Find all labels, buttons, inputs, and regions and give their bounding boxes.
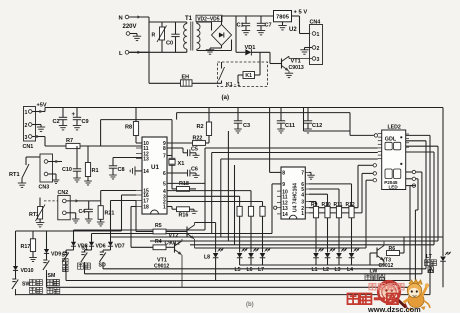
svg-text:VD9: VD9 [51, 252, 61, 258]
svg-text:9: 9 [282, 182, 285, 188]
wire right r1 [416, 172, 422, 274]
wire U1 pin2 to resistor L7 [167, 202, 263, 207]
watermark url [367, 305, 421, 314]
svg-text:LED2: LED2 [388, 124, 401, 130]
resistor for L5 [237, 206, 242, 252]
svg-text:L: L [119, 51, 123, 57]
node display right terminal 2 [406, 177, 416, 180]
thermal switch RT1 [9, 157, 40, 187]
svg-text:3: 3 [317, 57, 320, 63]
wire scan bus B4 [150, 240, 438, 242]
node display left terminal 3 [373, 172, 376, 175]
wire rectified rail [222, 16, 274, 25]
LED L8 [204, 248, 224, 281]
wire bottom bus y287 [47, 286, 416, 288]
svg-text:C0: C0 [166, 41, 173, 47]
wire right r2 [415, 179, 418, 287]
switch S1 timer [78, 246, 91, 274]
watermark seal [378, 281, 400, 303]
wire loop above U1 to display [177, 113, 350, 131]
terminal N [119, 15, 150, 21]
svg-text:1: 1 [25, 110, 28, 116]
capacitor C8 [109, 158, 142, 179]
svg-text:C2: C2 [53, 119, 60, 125]
svg-text:L6: L6 [247, 267, 253, 273]
svg-text:CN1: CN1 [23, 144, 34, 150]
wire display w3 [406, 146, 438, 241]
svg-text:2: 2 [25, 123, 28, 129]
svg-text:C11: C11 [285, 123, 295, 129]
transistor VT1 C9013 [282, 56, 313, 77]
wire scan bus B3 [111, 236, 444, 238]
transformer T1 [184, 16, 200, 52]
diode VD7 [103, 237, 125, 250]
svg-text:4: 4 [301, 192, 304, 198]
svg-text:+ 5 V: + 5 V [294, 10, 308, 16]
wire U1 pin3 to resistor L5 [167, 196, 240, 206]
svg-text:L2: L2 [323, 267, 329, 273]
wire keypad top bus [16, 231, 122, 265]
svg-text:L7: L7 [258, 267, 264, 273]
svg-text:SW: SW [22, 282, 30, 288]
resistor R1 [84, 146, 98, 185]
wire column x228 [227, 131, 229, 241]
label +5V [292, 10, 311, 34]
svg-text:5: 5 [163, 182, 166, 188]
capacitor C5 [167, 147, 200, 158]
svg-text:L5: L5 [235, 267, 241, 273]
svg-text:VD6: VD6 [96, 244, 106, 250]
svg-text:VT1: VT1 [291, 58, 301, 64]
svg-text:1: 1 [301, 211, 304, 217]
svg-text:18: 18 [143, 205, 149, 211]
LED L3 [335, 248, 348, 273]
svg-text:13: 13 [143, 157, 149, 163]
svg-text:C9: C9 [82, 119, 89, 125]
wire LED cathode bus [240, 264, 384, 266]
diode VD8 [66, 230, 88, 250]
wire +5V rail [32, 103, 443, 114]
svg-text:C4: C4 [79, 209, 86, 215]
resistor R7 [45, 138, 142, 149]
svg-text:L4: L4 [347, 267, 353, 273]
wire VT2 collector to L8 [195, 223, 216, 253]
svg-text:R17: R17 [21, 244, 31, 250]
bridge rectifier VD2~VD5 [196, 15, 232, 45]
label (b) [246, 302, 254, 308]
diode VD10 [13, 265, 34, 277]
diode VD9 [44, 231, 61, 258]
wire scan bus B5 [190, 244, 434, 246]
node U4 pin13 terminal [274, 206, 277, 209]
display module LED2 [378, 124, 409, 189]
svg-text:C6: C6 [191, 167, 198, 173]
svg-text:13: 13 [282, 206, 288, 212]
ground at CN2 pin2 [66, 213, 79, 223]
svg-text:2: 2 [317, 46, 320, 52]
connector CN1 [23, 107, 36, 151]
relay contact K1-1 dashed box [218, 62, 268, 87]
svg-text:3: 3 [25, 135, 28, 141]
svg-text:3: 3 [301, 200, 304, 206]
wire column x234 [234, 165, 236, 245]
wire scan bus B1 [74, 229, 206, 231]
resistor R9 [311, 202, 319, 253]
connector CN2 [58, 190, 71, 220]
watermark brush [396, 298, 409, 310]
wire +5V rail right drop [442, 108, 444, 238]
node display left terminal 1 [374, 134, 377, 137]
svg-text:C7: C7 [265, 23, 272, 29]
wire VD1 to VT1 base [270, 52, 282, 63]
terminal and ground for 220V neutral [126, 32, 141, 41]
wire loop above U1 to crystal [101, 120, 172, 156]
svg-text:11: 11 [282, 195, 288, 201]
svg-text:VD2~VD5: VD2~VD5 [197, 16, 220, 22]
wire U1 pin17 to VD7 column [111, 201, 137, 238]
wire display w2 [406, 141, 426, 269]
ground at CN4 pin2 [300, 48, 312, 55]
wire display third terminal [366, 180, 373, 248]
capacitor C9 [72, 108, 89, 130]
svg-text:U2: U2 [289, 27, 297, 33]
svg-text:VD7: VD7 [115, 244, 125, 250]
resistor R11 [334, 202, 343, 253]
svg-text:L1: L1 [312, 267, 318, 273]
wire U1 pin15 [101, 191, 136, 201]
svg-text:U4 74HC164: U4 74HC164 [293, 183, 299, 212]
label 220V [123, 24, 137, 30]
wire primary bottom [129, 51, 187, 53]
resistor R4 and transistor VT1 C9012 [153, 239, 183, 287]
resistor R2 [197, 108, 212, 144]
connector CN4 [310, 20, 323, 65]
svg-text:SM: SM [48, 273, 56, 279]
svg-text:8: 8 [163, 146, 166, 152]
svg-text:7: 7 [163, 154, 166, 160]
wire U1 pin16 to key bus [122, 195, 137, 231]
wire column x220 [221, 159, 378, 237]
relay coil K1 [238, 52, 260, 83]
heater EH [181, 75, 193, 87]
wire bottom bus y280 [66, 280, 410, 282]
label LW warm lamp [365, 269, 385, 281]
svg-text:CN3: CN3 [39, 185, 50, 191]
svg-text:R1: R1 [92, 168, 99, 174]
svg-text:220V: 220V [123, 24, 137, 30]
svg-text:R5: R5 [155, 223, 162, 229]
wire scan bus B2 [92, 184, 273, 234]
svg-text:14: 14 [282, 212, 288, 218]
wire U4 pin3 to R9 [309, 202, 316, 207]
wire display w4 [406, 152, 434, 245]
wire LED anode bus [195, 247, 367, 249]
svg-text:R2: R2 [197, 124, 204, 130]
svg-text:(b): (b) [246, 302, 254, 308]
svg-text:1: 1 [317, 32, 320, 38]
ground at U1 pin14 [130, 166, 142, 175]
switch SW [12, 277, 31, 295]
wire bottom bus y268 [103, 268, 426, 270]
svg-text:R7: R7 [66, 138, 73, 144]
wire U1 pin5 column [167, 148, 378, 230]
resistor for L6 [248, 206, 253, 252]
wire U4 pin9 from bus [272, 183, 281, 185]
svg-text:N: N [119, 16, 123, 22]
svg-text:LT: LT [426, 254, 433, 260]
resistor R17 [21, 231, 37, 261]
LED L1 [312, 248, 325, 273]
resistor R21 [97, 201, 114, 226]
svg-text:C12: C12 [312, 123, 322, 129]
svg-text:K1: K1 [245, 73, 252, 79]
resistor for L7 [260, 206, 265, 252]
node display right terminal 1 [406, 170, 416, 173]
LED LT start lamp [425, 237, 452, 287]
IC U4 74HC164 [277, 167, 309, 219]
switch ST [62, 250, 69, 281]
watermark mascot [404, 280, 431, 311]
svg-text:RT1: RT1 [9, 172, 20, 178]
wire U4 pin4 to R10 [309, 194, 328, 206]
capacitor C12 [304, 108, 322, 133]
LED L5 [235, 248, 249, 273]
wire CN2 pin1 to R21 [66, 199, 101, 202]
wire U4 pin6 to R12 [309, 184, 352, 207]
svg-text:GDL: GDL [385, 136, 397, 142]
diode VD1 [236, 16, 270, 56]
svg-text:(a): (a) [222, 94, 230, 101]
watermark small pink text [369, 284, 404, 290]
wire bottom bus y273 [85, 273, 422, 275]
transistor VT3 C9012 [370, 241, 393, 269]
wire bottom loop [149, 82, 222, 84]
wire display w1 [406, 135, 430, 294]
transistor VT2 C9012 [153, 223, 195, 249]
LED L4 [347, 248, 360, 273]
resistor R16 [167, 207, 198, 219]
regulator U2 7805 [274, 11, 298, 34]
wire right r3 [410, 186, 416, 281]
svg-text:C9013: C9013 [289, 65, 304, 71]
IC U1 [136, 137, 167, 214]
svg-text:X1: X1 [178, 161, 185, 167]
wire CN1 pin3 [32, 135, 45, 146]
wire column x211 [212, 153, 378, 234]
diode VD6 [85, 234, 106, 251]
svg-text:SD: SD [99, 263, 106, 269]
svg-text:14: 14 [143, 169, 149, 175]
wire +5V to U4 pin8 [270, 108, 281, 173]
svg-text:C3: C3 [243, 123, 250, 129]
ground at bridge [206, 46, 222, 55]
LED L2 [323, 248, 336, 273]
switch SM [43, 254, 55, 288]
label (a) [222, 94, 230, 101]
capacitor C7 [257, 16, 272, 35]
svg-text:R8: R8 [125, 125, 132, 131]
node display left terminal 2 [373, 164, 376, 167]
resistor R10 [322, 202, 331, 253]
svg-text:L3: L3 [335, 267, 341, 273]
capacitor C10 [62, 146, 81, 182]
label SW function [30, 280, 43, 294]
LED L6 [247, 248, 260, 273]
terminal L [119, 51, 149, 58]
svg-text:www.dzsc.com: www.dzsc.com [367, 305, 421, 313]
crystal X1 [167, 156, 184, 168]
node display right terminal 3 [406, 184, 416, 187]
svg-text:7805: 7805 [276, 15, 290, 21]
resistor R8 [125, 108, 142, 144]
thermistor RT2 [29, 198, 45, 227]
svg-text:C5: C5 [191, 147, 198, 153]
ground at U4 pin7 [307, 172, 315, 179]
wire secondary to bridge [197, 22, 232, 51]
svg-text:U1: U1 [151, 164, 159, 171]
connector CN3 [39, 154, 63, 191]
wire primary top [149, 21, 187, 23]
svg-text:LED: LED [389, 185, 399, 190]
capacitor C4 [79, 201, 93, 223]
wire column x303 [304, 108, 374, 136]
capacitor C1 [237, 16, 251, 35]
relay contact K1-1 [219, 62, 241, 88]
svg-text:R: R [152, 33, 156, 39]
svg-text:C8: C8 [118, 167, 125, 173]
svg-text:1: 1 [163, 205, 166, 211]
svg-text:R16: R16 [179, 213, 189, 219]
node display left terminal 4 [373, 179, 376, 182]
ground at CN1 pin2 [32, 125, 45, 132]
wire bottom bus y294 [16, 294, 431, 296]
svg-text:7: 7 [301, 171, 304, 177]
svg-text:6: 6 [163, 171, 166, 177]
resistor R6 [387, 237, 405, 256]
capacitor C6 [167, 165, 200, 177]
resistor R22 [167, 136, 209, 146]
svg-text:L8: L8 [204, 255, 210, 261]
wire N rail [148, 17, 150, 83]
varistor RV [152, 22, 167, 52]
svg-text:8: 8 [282, 171, 285, 177]
svg-text:T1: T1 [185, 16, 193, 22]
watermark text weiku [348, 294, 399, 305]
svg-text:LW: LW [370, 269, 378, 275]
wire U4 pin1 to display [309, 173, 373, 213]
LED L7 [258, 248, 271, 273]
capacitor C3 [234, 108, 250, 133]
svg-text:R21: R21 [105, 211, 115, 217]
wire VT2 feed from pin17 bus [136, 201, 153, 232]
capacitor C11 [277, 108, 295, 133]
wire RT2 dashed [44, 200, 58, 202]
wire U4 pin2 to display [309, 165, 373, 207]
svg-text:C10: C10 [62, 167, 72, 173]
wire U1 pin4 to resistor L6 [167, 191, 251, 207]
label SM function [47, 280, 60, 294]
svg-text:VD10: VD10 [21, 268, 34, 274]
capacitor C2 [53, 108, 68, 130]
svg-text:R4: R4 [155, 239, 162, 245]
wire U1 pin18 [131, 207, 153, 248]
capacitor C0 [166, 22, 180, 52]
resistor R18 [172, 173, 196, 191]
svg-text:VT2: VT2 [169, 233, 179, 239]
resistor R12 [346, 202, 355, 253]
svg-text:C9012: C9012 [379, 263, 394, 269]
switch SD [99, 250, 106, 269]
wire U4 pin5 to R11 [309, 189, 339, 206]
